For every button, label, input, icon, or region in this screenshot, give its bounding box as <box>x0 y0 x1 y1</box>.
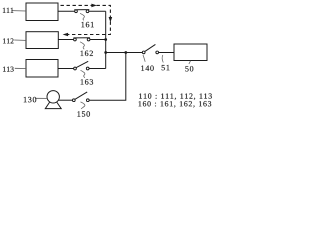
flow arrow right <box>91 4 97 8</box>
legend line 110 <box>139 93 212 99</box>
wire switch163 to bus <box>89 68 106 70</box>
label 161 <box>82 22 94 27</box>
wire vertical bus <box>105 11 107 68</box>
switch 150 (open) <box>72 99 89 102</box>
block 50 <box>174 44 207 61</box>
label 140 <box>141 66 153 71</box>
leader 113 <box>15 67 26 69</box>
flow arrow down <box>109 17 113 22</box>
block 111 <box>26 3 58 21</box>
label 112 <box>3 38 13 43</box>
wire box112 to switch162 <box>58 39 73 41</box>
label 163 <box>81 79 93 84</box>
leader 50 <box>189 61 191 64</box>
label 50 <box>185 66 193 71</box>
switch 161 (closed) <box>75 10 89 13</box>
label 113 <box>3 67 14 72</box>
leader 51 <box>162 55 163 63</box>
label 162 <box>81 51 93 56</box>
leader 112 <box>14 39 26 41</box>
dashed flow path <box>61 5 111 34</box>
label 130 <box>24 97 36 102</box>
wire pump riser <box>89 53 126 101</box>
switch 140 (open) <box>142 51 158 54</box>
leader 163 <box>81 70 85 77</box>
label 150 <box>78 111 90 116</box>
block 113 <box>26 60 58 78</box>
wire box111 to switch161 <box>58 10 74 12</box>
legend line 160 <box>139 101 212 107</box>
junction dot pump riser/feed <box>124 51 127 54</box>
label 111 <box>3 8 13 13</box>
flow arrow left <box>63 33 69 37</box>
switch 162 (closed) <box>74 38 90 41</box>
pump 130 <box>45 91 61 109</box>
wire switch162 to bus <box>90 39 106 41</box>
wire pump to switch150 <box>58 99 72 101</box>
block 112 <box>26 32 58 49</box>
wire box113 to switch163 <box>58 68 73 70</box>
label 51 <box>162 65 170 70</box>
leader 161 <box>80 13 84 20</box>
wire switch161 to bus corner <box>89 10 106 12</box>
leader 150 <box>81 102 85 109</box>
leader 130 <box>35 97 47 99</box>
switch 163 (open) <box>74 67 89 70</box>
leader 162 <box>80 42 84 49</box>
leader 111 <box>12 10 27 12</box>
wire switch140 to block50 <box>159 52 174 54</box>
wire feed line to switch140 <box>106 52 143 54</box>
junction dot feed/bus <box>104 51 107 54</box>
leader 140 <box>143 55 145 62</box>
junction dot row2/bus <box>104 38 107 41</box>
